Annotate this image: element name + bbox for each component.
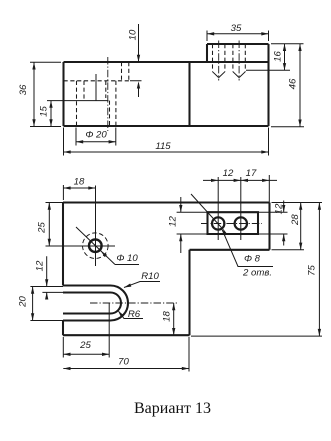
svg-text:12: 12 <box>168 216 179 227</box>
svg-text:10: 10 <box>128 29 139 40</box>
svg-text:12: 12 <box>274 203 285 214</box>
svg-text:70: 70 <box>118 357 129 368</box>
svg-text:36: 36 <box>18 84 29 95</box>
svg-text:R6: R6 <box>128 309 141 320</box>
svg-text:2 отв.: 2 отв. <box>242 268 272 279</box>
svg-text:25: 25 <box>79 340 91 351</box>
svg-text:16: 16 <box>273 51 284 62</box>
svg-text:75: 75 <box>307 265 318 276</box>
svg-text:12: 12 <box>35 260 46 271</box>
svg-text:Φ 8: Φ 8 <box>244 254 261 265</box>
svg-text:35: 35 <box>231 23 242 34</box>
svg-text:R10: R10 <box>141 271 159 282</box>
svg-text:17: 17 <box>246 168 257 179</box>
svg-text:46: 46 <box>288 78 299 89</box>
svg-text:20: 20 <box>18 296 29 308</box>
svg-text:Φ 20: Φ 20 <box>85 130 107 141</box>
svg-text:12: 12 <box>223 168 234 179</box>
svg-text:15: 15 <box>39 106 50 117</box>
svg-text:Вариант 13: Вариант 13 <box>134 400 211 417</box>
svg-text:115: 115 <box>155 141 171 152</box>
svg-text:Φ 10: Φ 10 <box>116 253 138 264</box>
svg-text:18: 18 <box>162 311 173 322</box>
svg-text:18: 18 <box>74 177 85 188</box>
svg-text:25: 25 <box>37 222 48 234</box>
svg-text:28: 28 <box>290 214 301 226</box>
